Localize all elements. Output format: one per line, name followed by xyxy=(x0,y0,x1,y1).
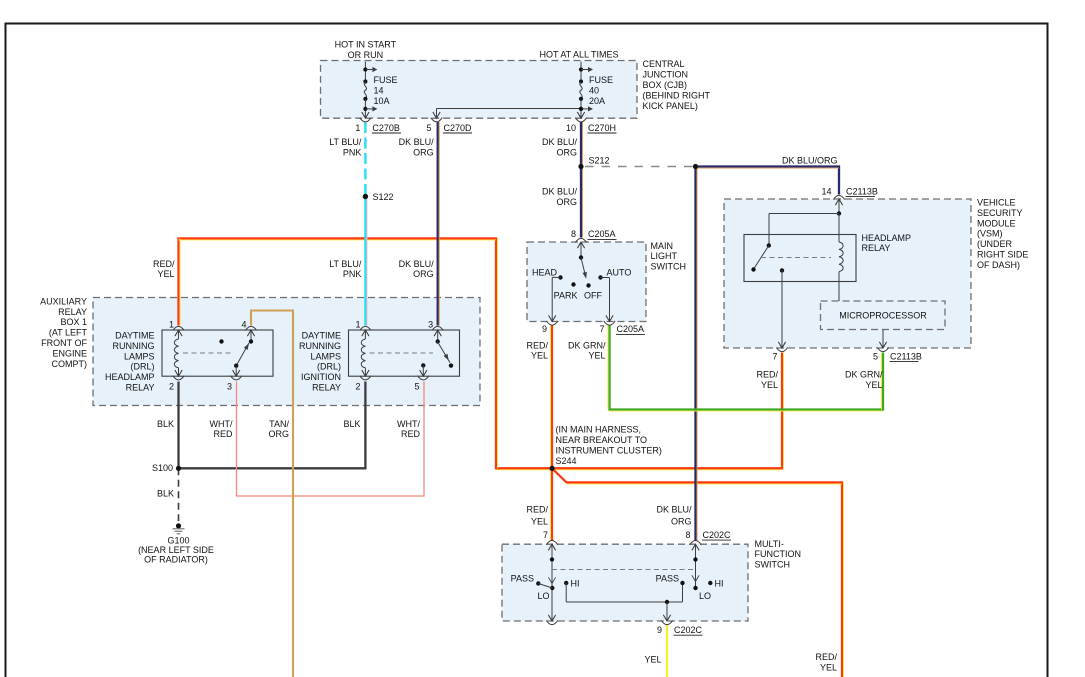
svg-text:C270B: C270B xyxy=(372,123,400,133)
svg-text:3: 3 xyxy=(227,382,232,392)
svg-text:TAN/: TAN/ xyxy=(269,419,289,429)
svg-text:C202C: C202C xyxy=(674,625,703,635)
svg-text:RIGHT SIDE: RIGHT SIDE xyxy=(977,250,1028,260)
svg-text:MAIN: MAIN xyxy=(651,241,674,251)
svg-text:BLK: BLK xyxy=(157,419,174,429)
svg-text:PARK: PARK xyxy=(554,290,578,300)
svg-text:C205A: C205A xyxy=(588,229,616,239)
svg-text:HEAD: HEAD xyxy=(532,267,558,277)
svg-text:4: 4 xyxy=(241,320,246,330)
svg-text:LAMPS: LAMPS xyxy=(310,351,341,361)
svg-text:DK BLU/: DK BLU/ xyxy=(542,186,578,196)
svg-text:14: 14 xyxy=(374,85,384,95)
svg-text:1: 1 xyxy=(169,320,174,330)
svg-text:RED: RED xyxy=(213,429,233,439)
svg-text:(BEHIND RIGHT: (BEHIND RIGHT xyxy=(643,90,711,100)
svg-text:C2113B: C2113B xyxy=(846,186,878,196)
svg-text:IGNITION: IGNITION xyxy=(301,372,341,382)
svg-text:BLK: BLK xyxy=(343,419,360,429)
svg-text:DAYTIME: DAYTIME xyxy=(302,331,341,341)
svg-text:1: 1 xyxy=(355,320,360,330)
svg-text:S100: S100 xyxy=(152,463,173,473)
svg-text:(AT LEFT: (AT LEFT xyxy=(49,328,88,338)
svg-text:SECURITY: SECURITY xyxy=(977,208,1023,218)
svg-text:DK BLU/ORG: DK BLU/ORG xyxy=(782,156,838,166)
svg-text:10A: 10A xyxy=(374,96,390,106)
svg-text:HI: HI xyxy=(571,579,580,589)
svg-text:ORG: ORG xyxy=(413,269,434,279)
svg-text:YEL: YEL xyxy=(865,380,882,390)
svg-text:2: 2 xyxy=(169,382,174,392)
svg-text:YEL: YEL xyxy=(531,351,548,361)
svg-text:DK BLU/: DK BLU/ xyxy=(399,259,435,269)
svg-text:CENTRAL: CENTRAL xyxy=(643,59,685,69)
svg-text:RED/: RED/ xyxy=(815,652,837,662)
svg-text:C2113B: C2113B xyxy=(890,351,922,361)
svg-text:S244: S244 xyxy=(556,456,577,466)
svg-text:DK BLU/: DK BLU/ xyxy=(399,137,435,147)
svg-text:PASS: PASS xyxy=(511,574,534,584)
svg-text:RUNNING: RUNNING xyxy=(113,341,155,351)
svg-text:ORG: ORG xyxy=(556,197,577,207)
svg-text:G100: G100 xyxy=(167,535,189,545)
svg-text:RELAY: RELAY xyxy=(862,243,891,253)
svg-text:BLK: BLK xyxy=(157,488,174,498)
svg-text:WHT/: WHT/ xyxy=(210,419,233,429)
svg-text:2: 2 xyxy=(355,382,360,392)
svg-text:LT BLU/: LT BLU/ xyxy=(329,137,362,147)
svg-text:MULTI-: MULTI- xyxy=(755,539,784,549)
svg-text:DK GRN/: DK GRN/ xyxy=(568,340,606,350)
svg-text:9: 9 xyxy=(542,324,547,334)
svg-text:(UNDER: (UNDER xyxy=(977,239,1012,249)
svg-text:KICK PANEL): KICK PANEL) xyxy=(643,101,698,111)
svg-text:(VSM): (VSM) xyxy=(977,229,1003,239)
svg-text:RELAY: RELAY xyxy=(126,383,155,393)
svg-text:RED/: RED/ xyxy=(756,369,778,379)
svg-text:SWITCH: SWITCH xyxy=(651,262,687,272)
svg-text:DAYTIME: DAYTIME xyxy=(115,331,154,341)
svg-text:AUXILIARY: AUXILIARY xyxy=(40,296,87,306)
svg-text:5: 5 xyxy=(873,351,878,361)
svg-text:S212: S212 xyxy=(589,155,610,165)
svg-text:ORG: ORG xyxy=(556,147,577,157)
svg-text:7: 7 xyxy=(772,351,777,361)
svg-text:S122: S122 xyxy=(373,192,394,202)
svg-text:LAMPS: LAMPS xyxy=(124,351,155,361)
svg-text:COMPT): COMPT) xyxy=(52,359,88,369)
svg-text:7: 7 xyxy=(599,324,604,334)
svg-text:VEHICLE: VEHICLE xyxy=(977,198,1016,208)
svg-text:C270H: C270H xyxy=(588,123,616,133)
svg-text:(DRL): (DRL) xyxy=(317,362,341,372)
svg-text:5: 5 xyxy=(414,382,419,392)
svg-text:BOX (CJB): BOX (CJB) xyxy=(643,80,688,90)
svg-text:1: 1 xyxy=(355,123,360,133)
svg-text:WHT/: WHT/ xyxy=(397,419,420,429)
svg-text:RELAY: RELAY xyxy=(312,383,341,393)
svg-text:MICROPROCESSOR: MICROPROCESSOR xyxy=(839,311,927,321)
svg-text:OFF: OFF xyxy=(584,290,602,300)
svg-text:HOT AT ALL TIMES: HOT AT ALL TIMES xyxy=(539,50,618,60)
svg-text:NEAR BREAKOUT TO: NEAR BREAKOUT TO xyxy=(556,435,648,445)
svg-text:MODULE: MODULE xyxy=(977,218,1016,228)
svg-text:LT BLU/: LT BLU/ xyxy=(329,259,362,269)
svg-text:10: 10 xyxy=(566,123,576,133)
svg-text:DK GRN/: DK GRN/ xyxy=(845,369,883,379)
svg-text:JUNCTION: JUNCTION xyxy=(643,70,689,80)
svg-text:YEL: YEL xyxy=(531,517,548,527)
svg-text:C202C: C202C xyxy=(703,530,732,540)
svg-text:8: 8 xyxy=(571,229,576,239)
svg-text:7: 7 xyxy=(543,530,548,540)
svg-text:HEADLAMP: HEADLAMP xyxy=(105,372,155,382)
svg-text:8: 8 xyxy=(685,530,690,540)
svg-text:FUSE: FUSE xyxy=(374,75,398,85)
svg-text:OR RUN: OR RUN xyxy=(348,50,384,60)
svg-text:(NEAR LEFT SIDE: (NEAR LEFT SIDE xyxy=(138,545,214,555)
svg-text:DK BLU/: DK BLU/ xyxy=(542,137,578,147)
svg-text:LO: LO xyxy=(538,591,550,601)
svg-text:C270D: C270D xyxy=(444,123,473,133)
svg-text:AUTO: AUTO xyxy=(607,267,632,277)
svg-text:RELAY: RELAY xyxy=(58,307,87,317)
svg-text:5: 5 xyxy=(426,123,431,133)
svg-text:OF RADIATOR): OF RADIATOR) xyxy=(144,555,208,565)
svg-text:HOT IN START: HOT IN START xyxy=(335,40,397,50)
svg-text:RUNNING: RUNNING xyxy=(299,341,341,351)
svg-text:FRONT OF: FRONT OF xyxy=(41,338,87,348)
svg-text:(DRL): (DRL) xyxy=(131,362,155,372)
svg-text:ORG: ORG xyxy=(413,147,434,157)
svg-text:PASS: PASS xyxy=(656,574,679,584)
svg-text:HEADLAMP: HEADLAMP xyxy=(862,233,912,243)
svg-text:BOX 1: BOX 1 xyxy=(60,317,87,327)
svg-text:SWITCH: SWITCH xyxy=(755,560,791,570)
svg-text:RED: RED xyxy=(401,429,421,439)
svg-text:FUSE: FUSE xyxy=(589,75,613,85)
svg-text:INSTRUMENT CLUSTER): INSTRUMENT CLUSTER) xyxy=(556,445,662,455)
svg-text:ORG: ORG xyxy=(671,517,692,527)
svg-text:RED/: RED/ xyxy=(526,340,548,350)
svg-text:RED/: RED/ xyxy=(153,259,175,269)
svg-text:YEL: YEL xyxy=(157,269,174,279)
svg-text:RED/: RED/ xyxy=(526,505,548,515)
svg-text:20A: 20A xyxy=(589,96,605,106)
svg-text:LIGHT: LIGHT xyxy=(651,251,678,261)
svg-text:PNK: PNK xyxy=(343,147,362,157)
svg-text:ORG: ORG xyxy=(268,429,289,439)
svg-text:C205A: C205A xyxy=(617,324,645,334)
svg-text:YEL: YEL xyxy=(588,351,605,361)
svg-text:YEL: YEL xyxy=(644,655,661,665)
svg-text:9: 9 xyxy=(657,625,662,635)
svg-text:PNK: PNK xyxy=(343,269,362,279)
svg-text:FUNCTION: FUNCTION xyxy=(755,549,802,559)
svg-text:YEL: YEL xyxy=(761,380,778,390)
svg-text:DK BLU/: DK BLU/ xyxy=(656,505,692,515)
svg-text:YEL: YEL xyxy=(820,663,837,673)
svg-text:HI: HI xyxy=(715,579,724,589)
svg-text:14: 14 xyxy=(821,186,831,196)
svg-text:OF DASH): OF DASH) xyxy=(977,260,1020,270)
svg-text:(IN MAIN HARNESS,: (IN MAIN HARNESS, xyxy=(556,425,642,435)
svg-text:40: 40 xyxy=(589,85,599,95)
svg-text:LO: LO xyxy=(699,591,711,601)
svg-text:ENGINE: ENGINE xyxy=(52,348,87,358)
svg-text:3: 3 xyxy=(428,320,433,330)
